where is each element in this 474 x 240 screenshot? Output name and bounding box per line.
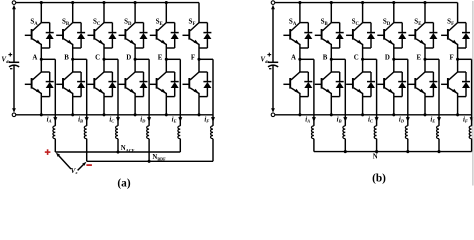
junction bottom rail leg F	[456, 113, 459, 116]
top dc rail (b)	[275, 2, 458, 4]
dc-link capacitor C (a)	[9, 61, 19, 63]
wire upper cell to node F	[457, 48, 459, 59]
phase C output wire	[104, 58, 118, 60]
node B	[71, 58, 74, 61]
wire upper cell to node B	[330, 48, 332, 59]
dc-link current arrow down (a)	[13, 65, 15, 108]
inductor LC	[116, 126, 118, 139]
inductor LD	[405, 126, 407, 139]
leg E: wire from top rail	[424, 3, 426, 23]
phase A output wire	[41, 58, 55, 60]
capacitor minus sign (a)	[10, 68, 12, 70]
diode DF1 (anti-parallel)	[199, 22, 207, 24]
transistor SB' lower (IGBT)	[64, 72, 73, 80]
diode DF2 (anti-parallel)	[458, 71, 466, 73]
svg-text:F: F	[449, 55, 453, 62]
wire lower cell to bottom rail leg C	[362, 97, 364, 115]
diode DC1 (anti-parallel)	[363, 22, 371, 24]
star point N wire	[313, 139, 315, 152]
inductor LC	[374, 126, 376, 139]
leg C: wire from top rail	[362, 3, 364, 23]
current arrow iD	[406, 117, 410, 122]
junction bottom rail leg E	[423, 113, 426, 116]
wire lower cell to bottom rail leg E	[424, 97, 426, 115]
inductor LB	[343, 126, 345, 139]
wire lower cell to bottom rail leg E	[165, 97, 167, 115]
junction bottom rail leg D	[134, 113, 137, 116]
transistor SD' lower (IGBT)	[385, 72, 394, 80]
node E	[165, 58, 168, 61]
leg C: wire from top rail	[103, 3, 105, 23]
transistor SC upper (IGBT)	[95, 23, 104, 31]
inductor LA	[53, 126, 55, 139]
junction top rail leg D	[134, 1, 137, 4]
diode DA1 (anti-parallel)	[300, 22, 308, 24]
dc-link capacitor C (b)	[268, 61, 278, 63]
bottom dc rail (a)	[16, 114, 213, 116]
wire upper cell to node E	[165, 48, 167, 59]
probe lead to N_ACE	[59, 156, 71, 169]
diode DE2 (anti-parallel)	[166, 71, 174, 73]
svg-text:E: E	[416, 55, 421, 62]
transistor SE upper (IGBT)	[157, 23, 166, 31]
diode DC1 (anti-parallel)	[104, 22, 112, 24]
junction bottom rail leg C	[102, 113, 105, 116]
junction N_ACE / phase C	[116, 150, 119, 153]
current arrow iB	[343, 117, 347, 122]
leg D: wire from top rail	[393, 3, 395, 23]
node F	[197, 58, 200, 61]
wire upper cell to node C	[362, 48, 364, 59]
wire lower cell to bottom rail leg A	[40, 97, 42, 115]
transistor SA upper (IGBT)	[32, 23, 41, 31]
capacitor minus sign (b)	[269, 68, 271, 70]
diode DA1 (anti-parallel)	[41, 22, 49, 24]
transistor SF upper (IGBT)	[190, 23, 199, 31]
diode DE1 (anti-parallel)	[166, 22, 174, 24]
leg F: wire from top rail	[457, 3, 459, 23]
junction top rail leg A	[298, 1, 301, 4]
transistor SC' lower (IGBT)	[95, 72, 104, 80]
wire node D to lower cell	[393, 59, 395, 72]
phase E output wire	[166, 58, 180, 60]
svg-text:(b): (b)	[372, 172, 386, 184]
transistor SF upper (IGBT)	[449, 23, 458, 31]
diode DF2 (anti-parallel)	[199, 71, 207, 73]
wire lower cell to bottom rail leg F	[457, 97, 459, 115]
current arrow iB	[85, 117, 89, 122]
leg A: wire from top rail	[299, 3, 301, 23]
node D	[392, 58, 395, 61]
transistor SC' lower (IGBT)	[354, 72, 363, 80]
dc bus negative terminal (b)	[271, 113, 275, 117]
wire upper cell to node A	[299, 48, 301, 59]
junction top rail leg E	[165, 1, 168, 4]
transistor SB' lower (IGBT)	[322, 72, 331, 80]
current arrow iA	[53, 117, 57, 122]
phase E output wire	[425, 58, 439, 60]
junction top rail leg D	[392, 1, 395, 4]
leg B: wire from top rail	[72, 3, 74, 23]
transistor SA' lower (IGBT)	[291, 72, 300, 80]
diode DD1 (anti-parallel)	[394, 22, 402, 24]
leg D: wire from top rail	[134, 3, 136, 23]
transistor SA' lower (IGBT)	[32, 72, 41, 80]
junction bottom rail leg B	[330, 113, 333, 116]
leg B: wire from top rail	[330, 3, 332, 23]
dc bus positive terminal (a)	[12, 1, 16, 5]
node A	[298, 58, 301, 61]
wire node B to lower cell	[330, 59, 332, 72]
transistor SB upper (IGBT)	[64, 23, 73, 31]
wire lower cell to bottom rail leg C	[103, 97, 105, 115]
diode DD2 (anti-parallel)	[394, 71, 402, 73]
wire lower cell to bottom rail leg B	[72, 97, 74, 115]
svg-text:C: C	[95, 55, 100, 62]
diode DF1 (anti-parallel)	[458, 22, 466, 24]
transistor SE upper (IGBT)	[416, 23, 425, 31]
transistor SF' lower (IGBT)	[190, 72, 199, 80]
current arrow iC	[116, 117, 120, 122]
top dc rail (a)	[16, 2, 199, 4]
diode DD2 (anti-parallel)	[135, 71, 143, 73]
transistor SD' lower (IGBT)	[126, 72, 135, 80]
wire lower cell to bottom rail leg D	[134, 97, 136, 115]
diode DB1 (anti-parallel)	[73, 22, 81, 24]
junction top rail leg B	[330, 1, 333, 4]
page edge artifact line	[472, 1, 474, 186]
current arrow iC	[375, 117, 379, 122]
junction top rail leg C	[361, 1, 364, 4]
junction top rail leg E	[423, 1, 426, 4]
junction bottom rail leg A	[40, 113, 43, 116]
diode DB2 (anti-parallel)	[73, 71, 81, 73]
svg-text:C: C	[354, 55, 359, 62]
junction top rail leg A	[40, 1, 43, 4]
node A	[40, 58, 43, 61]
phase F output wire	[199, 58, 213, 60]
current arrow iE	[178, 117, 182, 122]
dc bus negative terminal (a)	[12, 113, 16, 117]
node B	[330, 58, 333, 61]
dc-link current arrow down (b)	[272, 65, 274, 108]
diode DC2 (anti-parallel)	[104, 71, 112, 73]
diode DC2 (anti-parallel)	[363, 71, 371, 73]
inductor LD	[147, 126, 149, 139]
wire upper cell to node F	[198, 48, 200, 59]
wire node E to lower cell	[165, 59, 167, 72]
inductor LE	[178, 126, 180, 139]
wire node C to lower cell	[362, 59, 364, 72]
junction bottom rail leg F	[197, 113, 200, 116]
wire lower cell to bottom rail leg B	[330, 97, 332, 115]
diode DD1 (anti-parallel)	[135, 22, 143, 24]
node C	[361, 58, 364, 61]
current arrow iF	[211, 117, 215, 122]
wire upper cell to node D	[134, 48, 136, 59]
dc bus positive terminal (b)	[271, 1, 275, 5]
current arrow iE	[437, 117, 441, 122]
phase B output wire	[331, 58, 345, 60]
bottom dc rail (b)	[275, 114, 472, 116]
phase D output wire	[394, 58, 408, 60]
svg-text:B: B	[323, 55, 328, 62]
transistor SB upper (IGBT)	[322, 23, 331, 31]
dc-link current arrow up (b)	[272, 9, 274, 62]
junction top rail leg B	[71, 1, 74, 4]
diode DA2 (anti-parallel)	[300, 71, 308, 73]
wire node A to lower cell	[40, 59, 42, 72]
wire node A to lower cell	[299, 59, 301, 72]
junction bottom rail leg E	[165, 113, 168, 116]
svg-text:D: D	[385, 55, 390, 62]
leg E: wire from top rail	[165, 3, 167, 23]
node F	[456, 58, 459, 61]
svg-text:F: F	[191, 55, 195, 62]
wire node F to lower cell	[457, 59, 459, 72]
transistor SD upper (IGBT)	[385, 23, 394, 31]
svg-text:E: E	[158, 55, 163, 62]
diode DB1 (anti-parallel)	[331, 22, 339, 24]
svg-text:A: A	[32, 55, 37, 62]
probe lead to N_BDF	[78, 164, 84, 170]
node E	[423, 58, 426, 61]
wire upper cell to node D	[393, 48, 395, 59]
phase D output wire	[135, 58, 149, 60]
wire lower cell to bottom rail leg A	[299, 97, 301, 115]
wire lower cell to bottom rail leg F	[198, 97, 200, 115]
diode DE1 (anti-parallel)	[425, 22, 433, 24]
phase B output wire	[73, 58, 87, 60]
wire upper cell to node E	[424, 48, 426, 59]
transistor SE' lower (IGBT)	[157, 72, 166, 80]
wire upper cell to node A	[40, 48, 42, 59]
phase C output wire	[363, 58, 377, 60]
transistor SC upper (IGBT)	[354, 23, 363, 31]
wire upper cell to node C	[103, 48, 105, 59]
junction bottom rail leg C	[361, 113, 364, 116]
wire lower cell to bottom rail leg D	[393, 97, 395, 115]
leg A: wire from top rail	[40, 3, 42, 23]
junction bottom rail leg A	[298, 113, 301, 116]
wire upper cell to node B	[72, 48, 74, 59]
diode DA2 (anti-parallel)	[41, 71, 49, 73]
neutral bus N_BDF wire	[86, 139, 88, 162]
junction N_BDF / phase D	[148, 160, 151, 163]
wire node D to lower cell	[134, 59, 136, 72]
leg F: wire from top rail	[198, 3, 200, 23]
wire node C to lower cell	[103, 59, 105, 72]
junction bottom rail leg B	[71, 113, 74, 116]
node C	[102, 58, 105, 61]
wire node E to lower cell	[424, 59, 426, 72]
phase A output wire	[300, 58, 314, 60]
wire node B to lower cell	[72, 59, 74, 72]
inductor LB	[84, 126, 86, 139]
dc-link current arrow up (a)	[13, 9, 15, 62]
svg-text:A: A	[291, 55, 296, 62]
diode DB2 (anti-parallel)	[331, 71, 339, 73]
inductor LE	[437, 126, 439, 139]
junction bottom rail leg D	[392, 113, 395, 116]
diode DE2 (anti-parallel)	[425, 71, 433, 73]
wire node F to lower cell	[198, 59, 200, 72]
inductor LA	[312, 126, 314, 139]
phase F output wire	[458, 58, 472, 60]
transistor SF' lower (IGBT)	[449, 72, 458, 80]
svg-text:N: N	[373, 154, 378, 161]
transistor SD upper (IGBT)	[126, 23, 135, 31]
svg-text:D: D	[126, 55, 131, 62]
current arrow iD	[147, 117, 151, 122]
capacitor plus sign (b)	[267, 54, 271, 56]
node D	[134, 58, 137, 61]
inductor LF	[211, 126, 213, 139]
current arrow iF	[470, 117, 474, 122]
capacitor plus sign (a)	[8, 54, 12, 56]
svg-text:B: B	[64, 55, 69, 62]
transistor SE' lower (IGBT)	[416, 72, 425, 80]
neutral bus N_ACE wire	[54, 139, 56, 152]
current arrow iA	[312, 117, 316, 122]
junction top rail leg C	[102, 1, 105, 4]
svg-text:(a): (a)	[117, 177, 130, 189]
inductor LF	[469, 126, 471, 139]
voltage probe minus sign (red)	[86, 164, 92, 166]
voltage probe plus sign (red)	[45, 151, 51, 153]
transistor SA upper (IGBT)	[291, 23, 300, 31]
